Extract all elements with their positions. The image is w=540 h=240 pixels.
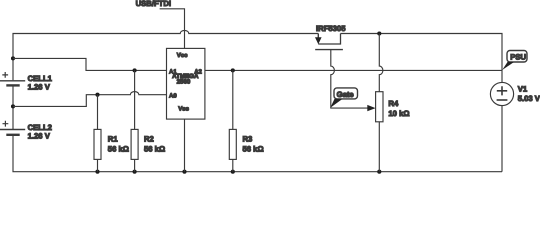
wire: midpoint sense wire to ATMEGA A0 (hop over R2 lead) (13, 92, 167, 107)
transistor Q1 IRF5305 P-MOSFET (315, 34, 343, 50)
resistor R1 56k (94, 95, 101, 172)
svg-text:Gate: Gate (337, 90, 355, 99)
wire: A1 sense wire from CELL1+ to ATMEGA A1 (13, 58, 167, 70)
svg-text:R4: R4 (388, 99, 399, 108)
node: junction R3 bottom on ground rail (231, 170, 235, 174)
wire: drain rail from MOSFET to PSU corner and V1+ (341, 34, 503, 83)
resistor R3 56k (229, 70, 236, 171)
label IRF5305 (316, 24, 346, 33)
svg-text:1.26 V: 1.26 V (28, 82, 51, 91)
node: junction R1 bottom on ground rail (95, 170, 99, 174)
svg-text:R2: R2 (144, 135, 154, 144)
IC U1 ATMEGA 2560 box (167, 48, 205, 119)
battery CELL1 (0, 72, 25, 85)
label R4 value (388, 99, 409, 118)
svg-text:Vcc: Vcc (177, 52, 188, 59)
svg-text:IRF5305: IRF5305 (316, 24, 346, 33)
svg-text:56 kΩ: 56 kΩ (243, 144, 264, 153)
resistor R2 56k (131, 70, 138, 171)
wire: Vss lead to ground rail (184, 119, 186, 172)
label USB/FTDI (136, 0, 171, 8)
node: junction Vss on ground rail (182, 170, 186, 174)
label CELL1 value (28, 74, 53, 91)
callout PSU (502, 51, 527, 71)
svg-text:R3: R3 (243, 135, 253, 144)
svg-text:Vss: Vss (178, 105, 189, 112)
voltage source V1 5.03V (490, 82, 513, 171)
resistor R4 10k potentiometer (376, 34, 383, 172)
svg-text:PSU: PSU (510, 53, 526, 62)
svg-text:V1: V1 (518, 85, 528, 94)
label V1 value (518, 85, 540, 103)
wire: ground rail (CELL2- along bottom to V1-) (13, 135, 502, 171)
node: junction R1 top on A0 wire (95, 93, 99, 97)
svg-text:10 kΩ: 10 kΩ (388, 109, 409, 118)
label ATMEGA pins and name (169, 52, 203, 112)
label R2 value (144, 135, 165, 154)
wiper arrowhead pointing at R4 (367, 105, 375, 111)
svg-text:A0: A0 (169, 92, 177, 99)
node: junction R4 bottom on ground rail (377, 170, 381, 174)
node: junction R2 bottom on ground rail (133, 170, 137, 174)
svg-text:USB/FTDI: USB/FTDI (136, 0, 171, 8)
wire: inter-cell link CELL1- to CELL2+ (12, 86, 14, 129)
svg-text:R1: R1 (108, 135, 119, 144)
node: junction battery midpoint tap (11, 104, 15, 108)
label CELL2 value (28, 123, 52, 140)
wire: A2 / PSU sense rail from ATMEGA A2 to PSU corner (205, 69, 502, 71)
node: junction R2 top on A1 wire (133, 68, 137, 72)
svg-text:56 kΩ: 56 kΩ (108, 144, 129, 153)
node: junction R4 top on drain rail (377, 31, 381, 35)
wire: gate lead down (hop over A2 wire) to wiper arrow (331, 50, 368, 109)
label R1 value (108, 135, 129, 154)
battery CELL2 (0, 121, 25, 135)
node: junction CELL1+ / A1 sense tap (11, 56, 15, 60)
svg-text:2560: 2560 (177, 78, 191, 85)
callout Gate (330, 88, 357, 108)
label R3 value (243, 135, 264, 154)
svg-text:1.26 V: 1.26 V (28, 131, 51, 140)
wire: USB/FTDI leader down to Vcc pin (160, 9, 185, 49)
wire: battery positive rail (CELL1+ up and across to MOSFET source, hop over USB wire) (13, 30, 318, 80)
svg-text:5.03 V: 5.03 V (518, 94, 540, 103)
node: junction R3 top on A2 wire (231, 68, 235, 72)
svg-text:56 kΩ: 56 kΩ (144, 144, 165, 153)
